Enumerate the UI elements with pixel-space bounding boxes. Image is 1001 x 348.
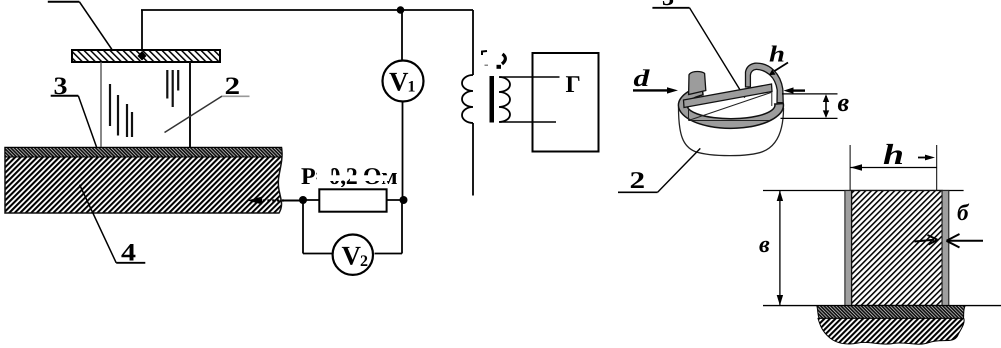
dimension h (cross-section) — [850, 139, 937, 190]
junction node top — [397, 6, 405, 14]
svg-text:2: 2 — [630, 168, 646, 194]
wire top node to V1 — [401, 10, 403, 61]
label 4 — [80, 185, 146, 267]
transformer core — [490, 76, 495, 123]
ring raised end right (helical flange) — [746, 63, 784, 103]
workpiece 4 dark top strip — [5, 148, 282, 158]
svg-text:d: d — [634, 66, 651, 92]
wire loop to voltmeter V2 — [303, 200, 402, 254]
label 3 (left figure) — [51, 73, 97, 148]
cylinder sample 2 side lines — [101, 62, 190, 148]
current lead arrow into workpiece — [248, 197, 304, 205]
svg-text:h: h — [769, 42, 785, 67]
diametral bar — [684, 84, 773, 108]
wire below primary coil — [472, 123, 474, 196]
svg-text:h: h — [883, 139, 904, 171]
label d with arrow — [633, 66, 678, 94]
wire top bus down to transformer primary — [472, 10, 474, 75]
coating layer right (gray strip) — [942, 191, 949, 307]
voltmeter V2 — [333, 235, 373, 275]
ring tab left — [689, 71, 706, 94]
reference top line — [763, 190, 964, 192]
svg-text:б: б — [957, 200, 970, 225]
label 3 top right (clipped by image edge) — [652, 0, 744, 98]
svg-text:V: V — [342, 240, 362, 270]
label Tr remnant fragments — [482, 51, 505, 69]
label R=0,2 Om (partially erased) — [301, 164, 397, 190]
inner cut face lines — [689, 93, 772, 121]
bar end face edge — [771, 92, 773, 106]
label 2 (right figure) — [618, 148, 700, 194]
voltmeter V1 — [383, 61, 424, 102]
node right of resistor — [400, 196, 408, 204]
label b with arrows (coating thickness) — [915, 200, 984, 248]
leader line for electrode 1 (label cut off at top) — [48, 2, 112, 50]
svg-text:Г: Г — [566, 72, 581, 98]
resistor R — [303, 189, 404, 211]
label 2 (left figure) — [165, 73, 250, 133]
label h with arrow (ring) — [769, 42, 788, 76]
workpiece 4 body — [5, 148, 282, 214]
svg-text:в: в — [759, 232, 770, 258]
dimension v (cross-section) — [759, 191, 783, 306]
svg-text:3: 3 — [662, 0, 674, 11]
electrode plate 1 — [72, 50, 220, 62]
svg-text:2: 2 — [360, 253, 368, 270]
svg-text:1: 1 — [408, 79, 416, 96]
svg-text:в: в — [838, 88, 850, 117]
generator box — [533, 53, 599, 152]
dimension v (ring) — [781, 88, 850, 118]
substrate body — [818, 318, 964, 344]
wires secondary to generator — [500, 77, 560, 122]
wire V1 to right resistor node — [402, 101, 404, 200]
coating layer left (gray strip) — [845, 191, 852, 307]
node left of resistor — [299, 196, 307, 204]
svg-text:V: V — [389, 67, 409, 97]
spray strokes inside sample — [110, 70, 178, 137]
ring gauge (C shaped, gray) — [678, 86, 783, 129]
deposit block hatched — [852, 191, 943, 306]
transformer secondary coil — [499, 77, 510, 122]
substrate dark strip — [817, 306, 965, 319]
arrow pointing left at ring right edge — [784, 87, 806, 93]
transformer primary coil — [462, 75, 473, 123]
svg-text:4: 4 — [121, 240, 137, 267]
substrate baseline — [763, 305, 1001, 307]
cylinder body 2 (3D) — [679, 107, 784, 156]
top bus wire — [141, 9, 473, 11]
wire from plate to top bus — [138, 10, 147, 61]
